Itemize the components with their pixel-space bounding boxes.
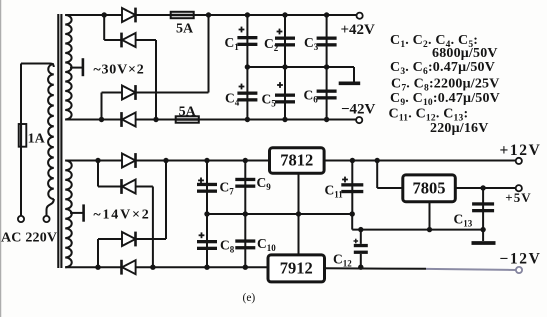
svg-text:220μ/16V: 220μ/16V (430, 121, 489, 136)
svg-text:~30V×2: ~30V×2 (93, 62, 144, 77)
svg-text:AC 220V: AC 220V (1, 231, 57, 246)
svg-text:(e): (e) (243, 292, 256, 304)
svg-text:+5V: +5V (505, 190, 531, 205)
svg-text:7812: 7812 (280, 151, 313, 170)
svg-text:−12V: −12V (500, 251, 542, 268)
svg-text:−42V: −42V (341, 102, 376, 118)
svg-text:C3. C6:0.47μ/50V: C3. C6:0.47μ/50V (390, 60, 495, 77)
svg-text:C9. C10:0.47μ/50V: C9. C10:0.47μ/50V (390, 91, 500, 108)
svg-text:1A: 1A (28, 131, 46, 146)
svg-text:+42V: +42V (341, 22, 376, 38)
svg-text:7805: 7805 (413, 179, 446, 198)
svg-text:6800μ/50V: 6800μ/50V (432, 46, 498, 61)
svg-text:5A: 5A (179, 105, 197, 120)
svg-text:+12V: +12V (500, 142, 542, 159)
svg-text:~14V×2: ~14V×2 (93, 207, 150, 222)
svg-text:7912: 7912 (280, 259, 313, 278)
svg-text:5A: 5A (176, 21, 194, 36)
